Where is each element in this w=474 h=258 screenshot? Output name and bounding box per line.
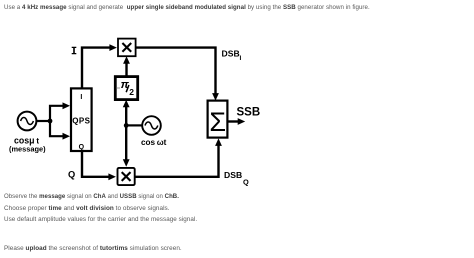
wire junction to carrier oscillator (126, 124, 141, 126)
wire QPS Q output down and right to M2 (82, 152, 110, 177)
junction dot (48, 119, 53, 124)
arrowhead into QPS upper input (63, 102, 71, 109)
instruction line 2 (4, 205, 170, 212)
carrier junction dot (124, 123, 129, 128)
svg-text:cos ωt: cos ωt (141, 138, 167, 147)
wire junction down to QPS input Q (50, 120, 64, 136)
wire M2 output right then up to summer (135, 145, 219, 177)
carrier oscillator (142, 116, 161, 135)
title text (4, 4, 370, 11)
svg-text:Q: Q (68, 169, 75, 179)
arrowhead into QPS lower input (63, 133, 71, 140)
wire QPS I output up and right to multiplier M1 (82, 48, 110, 88)
svg-text:QPS: QPS (72, 116, 90, 125)
svg-text:Q: Q (243, 177, 249, 186)
arrowhead into phase shifter bottom (123, 100, 130, 108)
svg-text:2: 2 (129, 87, 134, 97)
svg-text:DSB: DSB (222, 49, 240, 59)
label cos ωt (141, 138, 167, 147)
multiplier M1 (118, 39, 136, 57)
phase shifter pi/2 (115, 77, 137, 100)
svg-text:DSB: DSB (224, 170, 242, 180)
arrowhead into M1 bottom (123, 56, 130, 64)
svg-text:Σ: Σ (209, 107, 226, 137)
node label DSB_Q (224, 170, 249, 186)
wire junction up to QPS input I (50, 106, 64, 122)
wire junction up into phase shifter (125, 106, 127, 125)
label cosμt (message) (9, 136, 46, 154)
QPS block (71, 88, 92, 151)
arrowhead into summer bottom (215, 138, 222, 146)
arrowhead into summer top (212, 93, 219, 101)
arrowhead SSB output (238, 118, 246, 125)
instruction line 4 (4, 245, 182, 252)
arrowhead into M2 left (108, 173, 116, 180)
arrowhead into M2 top (123, 159, 130, 167)
wire message to junction (37, 120, 50, 122)
message oscillator (18, 112, 37, 131)
arrowhead into M1 left (109, 44, 117, 51)
instruction line 3 (4, 216, 197, 223)
wire phase shifter up to M1 (125, 63, 127, 77)
svg-text:Q: Q (79, 144, 85, 151)
summer U1 (208, 101, 228, 138)
instruction line 1 (4, 193, 179, 200)
node label I (72, 47, 77, 55)
multiplier M2 (118, 168, 135, 185)
svg-text:I: I (80, 94, 82, 101)
wire M1 output right then down to summer (136, 48, 216, 95)
wire junction down into M2 (125, 125, 127, 160)
svg-text:SSB: SSB (237, 107, 261, 119)
svg-text:(message): (message) (9, 145, 46, 154)
svg-text:I: I (240, 55, 242, 62)
node label DSB_I (222, 49, 242, 62)
summer output wire (228, 120, 240, 122)
